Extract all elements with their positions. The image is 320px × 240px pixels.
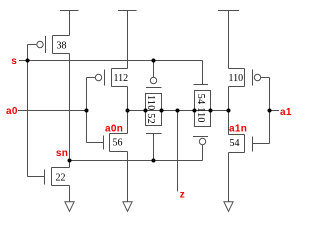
svg-text:56: 56 — [113, 138, 123, 149]
svg-text:110: 110 — [229, 73, 244, 84]
svg-text:22: 22 — [56, 173, 66, 184]
svg-text:54 110: 54 110 — [195, 94, 206, 123]
svg-text:a0n: a0n — [105, 124, 123, 135]
svg-text:sn: sn — [56, 148, 68, 159]
svg-text:a0: a0 — [6, 106, 18, 117]
svg-text:112: 112 — [114, 73, 129, 84]
svg-text:38: 38 — [57, 41, 67, 52]
svg-text:54: 54 — [230, 138, 240, 149]
svg-text:a1: a1 — [280, 107, 292, 118]
svg-text:a1n: a1n — [229, 124, 247, 135]
svg-text:z: z — [180, 189, 185, 200]
svg-text:s: s — [11, 56, 17, 67]
